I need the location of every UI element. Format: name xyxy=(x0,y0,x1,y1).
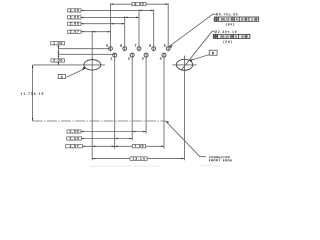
pin 4 xyxy=(162,53,166,57)
leader1 arrow at pin5 xyxy=(169,45,173,48)
dimension rowD 13.14 line xyxy=(92,158,184,160)
pin 3 xyxy=(144,53,148,57)
wire extension line pin5 top xyxy=(167,3,169,50)
dimension box rowB 2.50 xyxy=(67,137,82,140)
dim 8.00 arrows xyxy=(111,3,114,5)
dimension rowA 2.00 bottom line xyxy=(81,131,146,133)
dimension row1 2.00 line xyxy=(81,9,154,11)
vertical dim arrows x58 xyxy=(58,46,60,49)
label pin 1 xyxy=(111,57,113,59)
pin 7 xyxy=(137,47,141,51)
row1 arrows xyxy=(139,10,142,12)
label (9X) xyxy=(226,23,234,26)
wire left hole extension vertical xyxy=(91,31,93,161)
dimension box rowA 2.00 xyxy=(67,130,81,133)
wire centerline right stub xyxy=(173,64,197,66)
label pin 3 xyxy=(142,57,144,59)
rowB arrows xyxy=(115,138,118,140)
row4 arrows xyxy=(92,31,95,33)
datum B box xyxy=(209,50,217,55)
decorative faint gray smudge xyxy=(90,165,160,167)
feature control frame 1 xyxy=(214,17,259,21)
wire right hole extension vertical xyxy=(184,56,186,161)
wire vertical dim line x58 xyxy=(57,45,59,65)
dimension box rowC 3.07 xyxy=(66,145,83,148)
callout 2.30 text xyxy=(215,31,237,33)
dimension 8.00 line xyxy=(111,3,169,5)
wire centerline left xyxy=(33,64,105,66)
label (2X) xyxy=(223,40,231,43)
node connector front edge text xyxy=(209,156,230,158)
dimension box 7.00 xyxy=(132,145,145,148)
label pin 6 xyxy=(149,44,151,46)
dimension rowB 2.50 bottom line xyxy=(82,138,133,140)
dimension box 2.00 vertical xyxy=(51,59,65,62)
left dim 11.70 arrows xyxy=(32,65,34,68)
pin 6 xyxy=(152,47,156,51)
label pin 9 xyxy=(106,44,108,46)
wire extension line pin6 xyxy=(153,9,155,51)
node 11.70 dimension text xyxy=(21,92,44,94)
dimension rowC 3.07 and 7.00 line xyxy=(83,145,165,147)
wire pin2 extension down xyxy=(131,53,133,141)
rowD arrows xyxy=(92,158,95,160)
dimension row4 2.57 line xyxy=(81,31,111,33)
pin 5 xyxy=(166,47,170,51)
wire left vertical dim 11.70 xyxy=(32,65,34,121)
wire line A to pin9 xyxy=(58,48,110,50)
dimension box row3 2.00 xyxy=(68,22,82,25)
label pin 7 xyxy=(135,44,137,46)
wire leader1 to 0.70 callout xyxy=(170,14,216,46)
datum A arrow xyxy=(82,67,86,70)
dimension row2 2.00 line xyxy=(81,16,139,18)
front edge leader arrow xyxy=(166,121,170,123)
pin 1 xyxy=(113,53,117,57)
dimension box row4 2.57 xyxy=(68,30,82,33)
pin 9 xyxy=(109,47,113,51)
feature control frame 2 xyxy=(213,34,250,38)
dimension row3 2.00 line xyxy=(81,23,125,25)
mounting hole left xyxy=(84,60,101,70)
dimension box 1.00 xyxy=(51,42,65,45)
wire line B to pin1 xyxy=(58,53,114,55)
dimension box 8.00 xyxy=(132,3,146,6)
wire extension line pin9 top xyxy=(110,3,112,51)
label pin 5 xyxy=(164,44,166,46)
decorative faint pink mark xyxy=(200,165,221,166)
wire extension line pin7 xyxy=(138,9,140,51)
wire connector front edge dash-dot line xyxy=(33,120,166,122)
wire pin4 extension down xyxy=(163,53,165,149)
wire pin1 extension down xyxy=(114,53,116,149)
dimension box 13.14 xyxy=(130,157,147,160)
datum A box xyxy=(58,75,65,79)
wire datum A leader xyxy=(67,69,86,78)
label pin 8 xyxy=(120,44,122,46)
label pin 4 xyxy=(160,57,162,59)
wire extension line pin8 xyxy=(124,16,126,51)
label pin 2 xyxy=(128,57,130,59)
pin 8 xyxy=(123,47,127,51)
row2 arrows xyxy=(125,17,128,19)
callout 0.70 text xyxy=(216,13,238,15)
rowA arrows xyxy=(132,131,135,133)
rowC arrows xyxy=(92,146,95,148)
dimension box row1 2.00 xyxy=(68,9,82,12)
mounting hole right xyxy=(176,59,192,70)
wire leader2 to 2.30 callout xyxy=(182,31,215,70)
dimension box row2 2.00 xyxy=(68,16,82,19)
row3 arrows xyxy=(111,23,114,25)
wire leader to connector front edge text xyxy=(166,121,206,157)
leader2 arrow at right hole rim xyxy=(189,59,193,62)
pin 2 xyxy=(130,53,134,57)
wire datum B leader xyxy=(193,55,209,60)
wire pin3 extension down xyxy=(145,53,147,134)
